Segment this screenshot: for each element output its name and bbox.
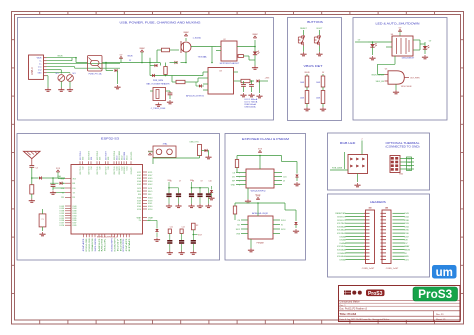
flash U6 body xyxy=(246,169,274,188)
svg-text:IO39/TCK: IO39/TCK xyxy=(123,238,125,252)
thermal wires xyxy=(400,158,414,160)
USB-C connector J1 xyxy=(29,55,44,79)
svg-text:Sheet: 1/1: Sheet: 1/1 xyxy=(436,318,446,321)
svg-text:VBUS: VBUS xyxy=(127,55,133,57)
section box EXPOSED FLASH PSRAM xyxy=(225,134,306,261)
wire USB CC1 xyxy=(47,69,62,71)
LDO U3 xyxy=(208,68,234,95)
svg-text:VBAT: VBAT xyxy=(148,216,154,219)
frame row ticks xyxy=(12,40,464,294)
cap bank B bus xyxy=(192,187,209,189)
icon circle 1 xyxy=(352,291,356,295)
svg-text:C7: C7 xyxy=(179,181,181,183)
wire to mosfet pair xyxy=(368,41,392,43)
svg-text:SIO2: SIO2 xyxy=(236,229,240,231)
svg-text:IO47: IO47 xyxy=(137,175,141,177)
svg-text:GND: GND xyxy=(231,184,236,186)
svg-text:IO19/USB: IO19/USB xyxy=(86,238,88,252)
wire USB_D- long xyxy=(53,187,65,189)
svg-text:IO10/A10: IO10/A10 xyxy=(337,255,347,258)
svg-text:VBUS: VBUS xyxy=(57,56,63,58)
svg-text:IO14: IO14 xyxy=(137,209,141,211)
osc cluster X2 xyxy=(153,146,176,158)
svg-text:GND: GND xyxy=(38,73,43,75)
diode D9 xyxy=(205,149,208,152)
AND gate U5 xyxy=(388,71,404,84)
svg-text:C10: C10 xyxy=(208,181,211,183)
svg-text:TSOD3AA: TSOD3AA xyxy=(198,56,208,59)
svg-text:IO40: IO40 xyxy=(137,206,141,208)
wire 3V3 out xyxy=(263,80,268,82)
svg-text:ProS3: ProS3 xyxy=(418,287,453,301)
svg-text:5K1: 5K1 xyxy=(72,73,75,75)
svg-text:IO20/USB: IO20/USB xyxy=(89,238,91,252)
svg-text:um: um xyxy=(436,267,453,279)
svg-text:USB_OTG: USB_OTG xyxy=(189,141,199,143)
wire EN to RC xyxy=(50,182,59,184)
ProS3 green logo xyxy=(413,287,458,301)
svg-text:SDI: SDI xyxy=(148,194,152,196)
ground psram xyxy=(248,248,254,252)
ESD resistor R7 xyxy=(67,75,74,82)
ESP32 right pins xyxy=(136,172,153,222)
charger IC U2 xyxy=(221,41,237,61)
ESP32 bottom pins xyxy=(83,234,131,252)
svg-text:IO2: IO2 xyxy=(82,167,84,170)
antenna ANT1 xyxy=(24,151,41,158)
svg-text:IO15/A15: IO15/A15 xyxy=(337,245,347,248)
svg-text:VBUS DET: VBUS DET xyxy=(304,64,324,68)
svg-text:LED & AUTO_SHUTDOWN: LED & AUTO_SHUTDOWN xyxy=(376,22,420,26)
rgb led internal leds xyxy=(350,158,365,168)
svg-text:IO42: IO42 xyxy=(137,184,141,186)
wire fuse to diode xyxy=(106,62,113,64)
wire RF to IC xyxy=(53,177,65,179)
svg-text:MOSI: MOSI xyxy=(102,237,104,251)
ground under LED xyxy=(252,66,258,70)
VCC arrow VBAT mux xyxy=(139,47,145,52)
polyfuse F1 xyxy=(88,56,103,72)
svg-text:VBUS: VBUS xyxy=(404,250,410,252)
svg-text:OUT_PWR: OUT_PWR xyxy=(410,77,420,79)
diode D11 flash xyxy=(281,156,283,162)
svg-text:Rev: 1: Rev: 1 xyxy=(340,305,347,307)
wire USB_D+ long xyxy=(53,192,65,194)
svg-text:IO14/A14: IO14/A14 xyxy=(337,229,347,232)
svg-text:VBAT: VBAT xyxy=(252,33,258,36)
svg-text:IO16/A16: IO16/A16 xyxy=(337,249,347,252)
crystal Y1 xyxy=(39,214,46,227)
svg-text:IO21: IO21 xyxy=(137,172,141,174)
svg-text:SIO3: SIO3 xyxy=(281,229,285,231)
section box LED-AUTOSHUTDOWN xyxy=(353,18,447,121)
diode D8 on RF xyxy=(32,177,39,179)
svg-text:BAT_VOLTAGE READER: BAT_VOLTAGE READER xyxy=(147,82,170,85)
section box ESP32-S3 xyxy=(17,134,220,261)
svg-text:IO40: IO40 xyxy=(137,198,141,200)
svg-text:IO9/A9: IO9/A9 xyxy=(339,258,346,261)
svg-text:C12: C12 xyxy=(181,226,184,228)
ground under D11 xyxy=(294,182,300,186)
svg-text:IO35/SPI: IO35/SPI xyxy=(112,238,114,252)
svg-text:CC2: CC2 xyxy=(38,70,42,72)
svg-text:IO39: IO39 xyxy=(137,200,141,202)
svg-text:74LVC1G08: 74LVC1G08 xyxy=(401,86,413,88)
svg-text:EPAD: EPAD xyxy=(128,237,131,251)
svg-text:MCP73831T-2ACI/OT: MCP73831T-2ACI/OT xyxy=(220,62,240,65)
svg-text:C4: C4 xyxy=(36,168,38,170)
ground under D12 xyxy=(293,229,299,233)
svg-text:C8: C8 xyxy=(192,181,194,183)
header J2 wires xyxy=(335,213,364,261)
psram U7 body xyxy=(248,216,273,239)
svg-text:OPTIONAL THERMAL: OPTIONAL THERMAL xyxy=(386,141,421,145)
VCC arrow VBAT above Q1 xyxy=(183,31,189,36)
svg-text:AP2112K-3.3TRG1: AP2112K-3.3TRG1 xyxy=(186,94,205,97)
ESP32 module U1 body xyxy=(71,165,143,235)
flash vcc wire xyxy=(259,156,261,170)
svg-text:RGB_DATA: RGB_DATA xyxy=(332,167,343,170)
vcc 3V3 psram xyxy=(256,196,261,200)
VCC 3V3 near osc xyxy=(148,151,153,155)
wire to charger xyxy=(191,46,216,48)
svg-text:FUSE_PTC 2A: FUSE_PTC 2A xyxy=(89,73,102,76)
svg-text:5K1: 5K1 xyxy=(55,73,58,75)
svg-text:RESET/EN: RESET/EN xyxy=(335,213,346,215)
svg-text:Title: ProS3: Title: ProS3 xyxy=(340,312,357,316)
svg-text:IO15/XTL: IO15/XTL xyxy=(131,167,133,175)
wire antenna junction xyxy=(31,178,33,185)
header J3 body xyxy=(382,210,391,264)
wire 5V rail xyxy=(121,62,160,64)
wire VBUS2 xyxy=(47,60,73,62)
junction dots S1 xyxy=(75,57,77,59)
svg-text:IO6: IO6 xyxy=(99,167,101,170)
resistor R8 mux xyxy=(164,67,167,75)
schottky diode D3 xyxy=(115,69,118,72)
svg-text:3V3: 3V3 xyxy=(368,207,371,209)
svg-text:SDO: SDO xyxy=(137,191,141,193)
svg-text:CONN_1x16T: CONN_1x16T xyxy=(362,268,375,270)
VCC arrow above LED xyxy=(252,33,258,38)
rgb vcc wire xyxy=(361,141,363,155)
svg-text:IO5/A5: IO5/A5 xyxy=(339,239,346,242)
resistor R2 column xyxy=(192,223,196,230)
title block row lines xyxy=(339,301,461,322)
rgb vertical pin text xyxy=(344,152,346,169)
svg-text:IO0: IO0 xyxy=(73,188,76,190)
diode D15 mid right xyxy=(211,186,213,190)
svg-text:U2: U2 xyxy=(223,39,225,41)
svg-text:Unexpected Maker: Unexpected Maker xyxy=(340,301,360,304)
svg-text:IO45: IO45 xyxy=(137,178,141,180)
svg-text:VBAT: VBAT xyxy=(139,47,145,50)
button SW1 RESET xyxy=(303,30,305,35)
ground under D5 xyxy=(256,94,262,98)
resistor R10 stat xyxy=(238,55,244,58)
svg-text:GND: GND xyxy=(404,256,409,258)
svg-text:IO18/A18: IO18/A18 xyxy=(337,225,347,228)
svg-text:VBAT: VBAT xyxy=(183,31,189,34)
svg-text:(CONNECTED TO GND): (CONNECTED TO GND) xyxy=(386,144,420,148)
svg-text:IO4/A4: IO4/A4 xyxy=(339,242,346,245)
ground under rgb xyxy=(357,174,359,183)
svg-text:BUTTONS: BUTTONS xyxy=(307,20,323,24)
cap bank A bus xyxy=(169,187,179,189)
um logo xyxy=(432,265,457,279)
psram vcc wire xyxy=(257,203,259,216)
svg-text:HEADERS: HEADERS xyxy=(370,200,386,204)
wire VBUS from USB xyxy=(47,57,77,59)
svg-text:3V3: 3V3 xyxy=(73,178,76,180)
ProS3 red badge xyxy=(366,290,385,297)
svg-text:IO14: IO14 xyxy=(126,167,128,171)
VCC arrow 5V xyxy=(119,55,122,59)
svg-text:IO41: IO41 xyxy=(137,203,141,205)
svg-text:SCLK: SCLK xyxy=(281,220,287,222)
ground under C5 xyxy=(50,191,56,195)
LED D6 xyxy=(372,42,374,44)
svg-text:SCK: SCK xyxy=(105,237,107,252)
ESP32 top pins xyxy=(80,150,133,175)
wire Q1 drain down xyxy=(185,52,187,63)
section box RGB LED xyxy=(328,133,430,190)
diode D16 en xyxy=(199,84,202,87)
svg-text:IO44: IO44 xyxy=(137,181,141,183)
header J3 wires xyxy=(393,213,411,261)
rgb led U8 body xyxy=(348,155,368,174)
svg-text:3V3: 3V3 xyxy=(385,207,388,209)
cap C2 at LDO out xyxy=(243,81,245,84)
svg-text:EXPOSED FLASH & PSRAM: EXPOSED FLASH & PSRAM xyxy=(242,137,289,141)
svg-text:1_SJ23A: 1_SJ23A xyxy=(193,37,202,40)
bat divider box xyxy=(153,88,166,101)
wire mid rail xyxy=(150,75,203,77)
diode D12 psram xyxy=(284,203,286,210)
svg-text:3V3/OUT: 3V3/OUT xyxy=(337,217,346,219)
header J2 body xyxy=(366,210,375,264)
ground under D6 xyxy=(369,56,375,60)
ground under D7 xyxy=(422,55,428,59)
ground under gate xyxy=(393,90,399,94)
ground flash xyxy=(245,199,251,203)
ferrite FB1 xyxy=(241,79,250,82)
svg-text:IO26: IO26 xyxy=(73,225,77,227)
ground under R6 xyxy=(58,88,64,92)
svg-text:IO6/A6: IO6/A6 xyxy=(339,235,346,238)
wire VBUS to fuse xyxy=(75,58,77,63)
title block outline xyxy=(339,286,461,322)
svg-text:Y1: Y1 xyxy=(41,219,43,221)
svg-text:C11: C11 xyxy=(170,226,173,228)
cap C5 RF xyxy=(52,178,54,185)
svg-text:IO11/A11: IO11/A11 xyxy=(337,252,346,255)
svg-text:SELF_EN: SELF_EN xyxy=(376,81,385,83)
svg-text:SCK: SCK xyxy=(148,188,153,190)
ground under SW1 xyxy=(300,52,306,56)
section box HEADERS xyxy=(328,194,430,277)
svg-text:GND: GND xyxy=(126,237,128,251)
cap C3 at divider xyxy=(169,91,171,93)
svg-text:RGB LED: RGB LED xyxy=(340,141,356,145)
mosfet pair U4 network xyxy=(392,36,413,56)
wire gate feedback xyxy=(378,74,385,76)
svg-text:DMC2038LVT: DMC2038LVT xyxy=(402,57,415,59)
ground under Y1 xyxy=(39,232,45,236)
svg-text:PWR_PATH: PWR_PATH xyxy=(153,79,164,82)
pullup R3 xyxy=(198,145,202,156)
svg-text:SDA/IO8: SDA/IO8 xyxy=(91,237,94,251)
svg-text:IO4: IO4 xyxy=(91,167,93,170)
svg-text:Doc: ProS3_P3 Feather v3: Doc: ProS3_P3 Feather v3 xyxy=(340,308,368,311)
vcc 3V3 flash xyxy=(258,149,263,153)
mosfet Q1 xyxy=(181,42,191,52)
ground under SW2 xyxy=(316,52,322,56)
svg-text:IO36/SPI: IO36/SPI xyxy=(115,238,117,252)
button SW2 BOOT xyxy=(319,30,321,35)
ground under C2 xyxy=(240,93,246,97)
net label wire left xyxy=(355,41,368,43)
LED D7 xyxy=(424,44,426,46)
svg-text:IO12/A12: IO12/A12 xyxy=(337,232,347,235)
ground under RV1 xyxy=(304,107,310,111)
svg-text:Date: 6 Jan 2022 10:08 Drawn: Date: 6 Jan 2022 10:08 Drawn By: Unexpec… xyxy=(340,318,390,321)
wire USB CC2 xyxy=(47,72,71,74)
svg-text:IO17/A17: IO17/A17 xyxy=(337,222,347,225)
svg-text:CONN_1x16T: CONN_1x16T xyxy=(386,268,399,270)
resistor R9 en xyxy=(176,80,185,83)
svg-text:C9: C9 xyxy=(200,181,202,183)
frame column ticks xyxy=(40,12,435,325)
ESD resistor R6 xyxy=(58,75,65,82)
svg-text:D+: D+ xyxy=(39,64,41,66)
svg-text:ESP32-S3: ESP32-S3 xyxy=(101,137,120,141)
wire USB D- xyxy=(47,63,121,65)
section box USB/POWER xyxy=(18,18,274,121)
svg-text:VBUS: VBUS xyxy=(37,58,43,60)
resistor R1 horizontal xyxy=(162,48,170,52)
resistor R5 psram xyxy=(233,206,236,214)
wire LDO in xyxy=(202,72,204,76)
ground under divider xyxy=(155,103,161,107)
wire USB D+ xyxy=(47,66,75,68)
svg-text:ProS3: ProS3 xyxy=(368,291,383,297)
svg-text:VBAT: VBAT xyxy=(404,245,410,248)
icon circle 2 xyxy=(358,291,362,295)
ground under C14 xyxy=(248,93,254,97)
resistor R4 flash xyxy=(235,160,238,168)
svg-text:W25Q128JVPIQ: W25Q128JVPIQ xyxy=(251,191,266,193)
svg-text:IO15/XTL: IO15/XTL xyxy=(131,151,133,160)
pi filter cap C4 xyxy=(29,166,34,168)
svg-text:PSRAM: PSRAM xyxy=(256,242,263,245)
ESP32 left pins xyxy=(60,178,77,227)
thermal pad U9 body xyxy=(390,156,400,173)
svg-text:BOOT: BOOT xyxy=(317,28,323,30)
ground under D3 xyxy=(114,85,120,89)
wire antenna down xyxy=(31,159,33,165)
charge LED D14 xyxy=(254,40,256,52)
svg-text:USB-C: USB-C xyxy=(30,67,34,75)
svg-text:2: 2 xyxy=(361,138,362,140)
svg-text:USB, POWER, FUSE, CHARGING AND: USB, POWER, FUSE, CHARGING AND MUXING xyxy=(120,21,201,25)
svg-text:GND: GND xyxy=(83,237,85,251)
ground under RV2 xyxy=(320,107,326,111)
svg-text:APS6404L-3SQR: APS6404L-3SQR xyxy=(252,212,268,215)
svg-text:MISO: MISO xyxy=(99,238,101,252)
diode D10 bottom right xyxy=(147,219,157,221)
ground under R7 xyxy=(67,88,73,92)
flag icon xyxy=(344,291,351,295)
diode D4 xyxy=(175,61,178,64)
vcc 5V above mosfet box xyxy=(398,28,401,32)
section box BUTTONS xyxy=(288,18,342,121)
svg-text:SDI: SDI xyxy=(138,194,141,196)
ground under antenna xyxy=(29,199,35,203)
svg-text:IO8: IO8 xyxy=(108,167,110,170)
svg-text:GND: GND xyxy=(399,174,404,176)
vcc 3V3 left pin xyxy=(56,168,61,172)
svg-text:VBUS: VBUS xyxy=(304,72,310,74)
diode D13 mux xyxy=(155,64,158,67)
svg-text:R2: R2 xyxy=(196,225,198,227)
ground under USB xyxy=(45,88,51,92)
svg-text:SCL/IO9: SCL/IO9 xyxy=(95,237,97,251)
thermal gnd squares xyxy=(407,157,412,171)
diode D5 xyxy=(257,79,260,82)
svg-text:USB 500mA: USB 500mA xyxy=(245,105,257,108)
svg-text:Rev: P3: Rev: P3 xyxy=(436,314,444,316)
cap C14 at LDO out2 xyxy=(251,81,253,84)
wire USB gnd pin xyxy=(47,75,49,77)
svg-text:C6: C6 xyxy=(169,181,171,183)
svg-text:C_T/BVD_R10K: C_T/BVD_R10K xyxy=(151,108,166,110)
svg-text:CC1: CC1 xyxy=(38,67,42,69)
svg-text:IO17: IO17 xyxy=(198,235,202,237)
svg-text:SDO: SDO xyxy=(148,191,153,193)
pi filter inductor L1 xyxy=(30,185,34,194)
ground under D9 xyxy=(205,155,211,159)
svg-text:3V3/OUT: 3V3/OUT xyxy=(337,220,346,222)
svg-text:RESET: RESET xyxy=(300,28,307,30)
